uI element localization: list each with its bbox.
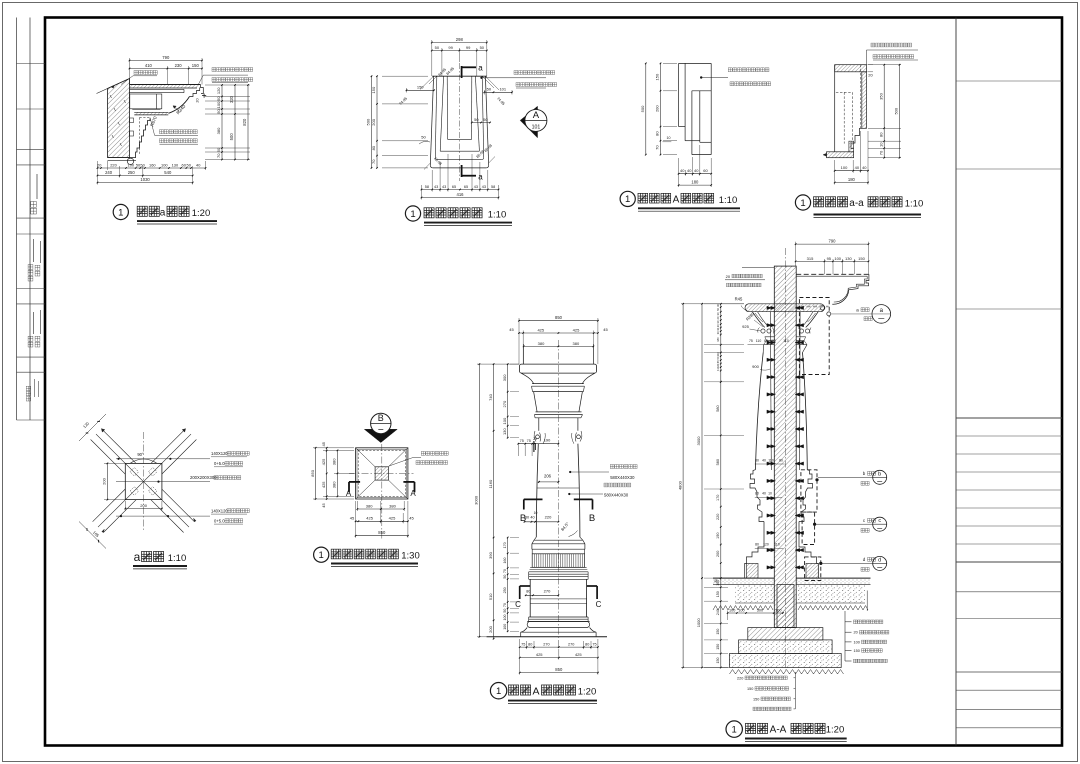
svg-text:A: A xyxy=(533,110,540,121)
svg-text:200: 200 xyxy=(371,118,376,125)
svg-text:100: 100 xyxy=(503,615,507,621)
bottom dims xyxy=(520,646,598,648)
top dims xyxy=(519,320,598,322)
svg-text:45: 45 xyxy=(350,516,355,521)
leader annotation 3 xyxy=(116,515,210,517)
svg-text:1:10: 1:10 xyxy=(719,195,738,206)
svg-text:140X120: 140X120 xyxy=(211,508,228,513)
svg-text:50: 50 xyxy=(474,117,479,122)
svg-text:150: 150 xyxy=(747,687,753,691)
svg-text:80: 80 xyxy=(585,643,589,647)
svg-text:40: 40 xyxy=(862,165,867,170)
svg-text:65: 65 xyxy=(464,185,468,189)
svg-text:270: 270 xyxy=(543,643,549,647)
svg-text:200: 200 xyxy=(655,105,660,112)
svg-text:a: a xyxy=(160,208,166,219)
svg-text:10: 10 xyxy=(878,142,883,147)
svg-text:50: 50 xyxy=(216,96,221,101)
svg-text:150: 150 xyxy=(192,63,200,68)
svg-text:380: 380 xyxy=(573,341,580,346)
svg-text:425: 425 xyxy=(573,327,580,332)
svg-text:100: 100 xyxy=(503,624,507,630)
svg-text:40: 40 xyxy=(680,168,685,173)
svg-text:100: 100 xyxy=(161,162,168,167)
svg-text:580: 580 xyxy=(716,459,720,465)
svg-text:43: 43 xyxy=(474,185,478,189)
detail 3: shape lines xyxy=(679,62,712,64)
bottom dims xyxy=(679,173,712,175)
svg-text:1: 1 xyxy=(800,198,805,209)
svg-text:120: 120 xyxy=(216,87,221,94)
svg-text:58: 58 xyxy=(491,185,495,189)
right dims col3 xyxy=(247,85,249,160)
abacus band hatched xyxy=(745,304,824,312)
left dim col 3000/1000 xyxy=(701,304,703,578)
ground band B xyxy=(735,585,774,603)
detail 6: outer square xyxy=(356,448,408,499)
svg-text:180: 180 xyxy=(716,337,720,342)
base mouldings right xyxy=(799,470,813,522)
svg-text:1: 1 xyxy=(410,209,415,220)
svg-text:250: 250 xyxy=(128,170,136,175)
svg-text:200: 200 xyxy=(716,551,720,557)
annotation right xyxy=(700,76,702,78)
svg-text:50: 50 xyxy=(487,87,492,92)
svg-text:80: 80 xyxy=(528,643,532,647)
svg-text:416: 416 xyxy=(457,192,465,197)
bottom dim 200 xyxy=(125,508,162,510)
svg-text:300: 300 xyxy=(757,608,763,612)
svg-text:a: a xyxy=(478,173,483,182)
svg-text:100: 100 xyxy=(834,256,841,261)
svg-text:75: 75 xyxy=(527,439,531,443)
svg-text:580X440X30: 580X440X30 xyxy=(610,475,635,480)
svg-text:500: 500 xyxy=(640,105,645,112)
top dims 790 xyxy=(796,243,869,245)
dashed callout box b xyxy=(801,470,817,512)
svg-text:790: 790 xyxy=(829,239,837,244)
leader annotation 1 xyxy=(116,458,210,460)
svg-text:A: A xyxy=(673,195,680,206)
svg-text:B: B xyxy=(378,413,384,423)
svg-text:20: 20 xyxy=(854,631,858,635)
svg-text:80: 80 xyxy=(878,132,883,137)
scarified soil zigzag xyxy=(713,606,868,611)
annotation top-right GFC xyxy=(212,68,253,72)
svg-text:45: 45 xyxy=(603,327,608,332)
svg-text:410: 410 xyxy=(145,63,153,68)
svg-text:206: 206 xyxy=(544,474,552,479)
svg-text:R45: R45 xyxy=(735,297,743,302)
svg-text:43: 43 xyxy=(482,185,486,189)
dim 150 xyxy=(407,89,435,91)
svg-text:30: 30 xyxy=(714,579,718,583)
right annotation stack (5) xyxy=(844,611,846,661)
svg-text:240: 240 xyxy=(105,170,113,175)
footing F3 xyxy=(730,654,842,668)
base mouldings left xyxy=(750,470,764,522)
capital shell face lines xyxy=(769,312,772,470)
svg-text:510: 510 xyxy=(488,593,493,600)
top dims 298 xyxy=(432,42,487,44)
svg-text:100: 100 xyxy=(738,608,744,612)
svg-text:b: b xyxy=(878,471,881,477)
strip label ACHITECT / ST.ENGINEER xyxy=(28,336,33,347)
svg-text:3000: 3000 xyxy=(696,436,701,446)
svg-text:850: 850 xyxy=(378,530,386,535)
svg-text:43: 43 xyxy=(434,185,438,189)
wall base bead xyxy=(108,157,137,159)
svg-text:C: C xyxy=(515,600,521,609)
svg-text:70: 70 xyxy=(503,603,507,607)
svg-text:220: 220 xyxy=(737,676,743,680)
base torus xyxy=(527,622,589,628)
bottom dims row1 xyxy=(98,167,206,169)
dashed callout box c xyxy=(802,512,815,544)
shell 2 xyxy=(440,76,443,151)
svg-text:315: 315 xyxy=(807,256,814,261)
right vdims xyxy=(868,64,901,66)
svg-text:1:10: 1:10 xyxy=(488,209,507,220)
leader annotation 2 (center) xyxy=(116,481,210,483)
svg-text:C: C xyxy=(596,600,602,609)
svg-text:80: 80 xyxy=(755,492,759,496)
left dim col near xyxy=(720,304,722,353)
svg-text:40: 40 xyxy=(762,459,766,463)
svg-text:220: 220 xyxy=(545,515,552,520)
annotation right GFC xyxy=(480,77,482,79)
svg-text:1: 1 xyxy=(118,207,123,218)
svg-text:99: 99 xyxy=(448,45,453,50)
svg-text:170: 170 xyxy=(716,495,720,501)
svg-text:1:20: 1:20 xyxy=(192,208,211,219)
svg-text:110: 110 xyxy=(783,339,789,343)
svg-text:1:20: 1:20 xyxy=(826,724,845,735)
right dims col2 xyxy=(234,85,236,160)
bottom annotation stack (4) xyxy=(794,672,796,709)
bottom dims xyxy=(422,189,499,191)
abacus xyxy=(520,364,597,373)
svg-text:100: 100 xyxy=(216,101,221,108)
svg-text:75: 75 xyxy=(749,339,753,343)
svg-text:3000: 3000 xyxy=(474,495,479,505)
svg-text:45: 45 xyxy=(409,516,414,521)
svg-text:50: 50 xyxy=(216,147,221,152)
neck to shaft xyxy=(762,345,764,353)
svg-text:70: 70 xyxy=(878,150,883,155)
svg-text:425: 425 xyxy=(321,458,326,465)
svg-text:1: 1 xyxy=(496,686,501,697)
svg-text:270: 270 xyxy=(568,643,574,647)
bottom dims xyxy=(835,170,868,172)
title 8 xyxy=(726,721,742,737)
bottom dims xyxy=(357,508,404,510)
svg-text:80: 80 xyxy=(755,459,759,463)
shaft joint line xyxy=(537,487,579,489)
echinus curves xyxy=(521,373,534,384)
svg-text:380: 380 xyxy=(389,503,396,508)
svg-text:4800: 4800 xyxy=(677,480,682,490)
svg-text:850: 850 xyxy=(555,315,563,320)
step profile xyxy=(851,128,862,148)
svg-text:1:10: 1:10 xyxy=(168,553,187,564)
detail circle d xyxy=(873,556,887,570)
svg-text:300: 300 xyxy=(502,374,507,381)
echinus curves xyxy=(752,312,765,328)
svg-text:350: 350 xyxy=(878,92,883,99)
dim 50/101 xyxy=(484,91,512,93)
left title strip xyxy=(16,18,18,421)
left extension lines xyxy=(704,303,744,305)
annotation right group2 xyxy=(568,493,570,495)
dim 50/50 mid xyxy=(472,122,490,124)
rings xyxy=(529,573,588,575)
main diagonals xyxy=(96,434,189,527)
svg-text:190: 190 xyxy=(544,438,551,443)
svg-text:20: 20 xyxy=(868,73,873,78)
svg-text:200X200X300: 200X200X300 xyxy=(190,475,217,480)
svg-text:50: 50 xyxy=(435,45,440,50)
svg-text:45: 45 xyxy=(321,441,326,446)
svg-text:200: 200 xyxy=(140,503,147,508)
svg-text:a: a xyxy=(134,550,141,564)
wall slope line xyxy=(97,79,130,94)
right hatched strip xyxy=(862,72,867,129)
top hatched band xyxy=(835,65,867,72)
svg-text:200: 200 xyxy=(102,477,107,484)
svg-text:900: 900 xyxy=(752,364,759,369)
svg-text:100: 100 xyxy=(729,608,735,612)
detail 3 left vdims xyxy=(663,62,677,64)
svg-text:850: 850 xyxy=(555,667,563,672)
stone top edge xyxy=(432,75,487,77)
B marks xyxy=(524,498,543,500)
svg-text:270: 270 xyxy=(502,400,507,407)
title 1 xyxy=(113,204,128,219)
svg-text:160: 160 xyxy=(503,558,507,564)
dashed interior xyxy=(843,92,845,143)
roof slab xyxy=(796,273,869,275)
svg-text:50: 50 xyxy=(480,45,485,50)
detail 5: center square xyxy=(125,463,162,499)
svg-text:500: 500 xyxy=(229,133,234,141)
svg-text:A: A xyxy=(532,686,539,698)
svg-text:850: 850 xyxy=(310,469,315,476)
svg-text:40: 40 xyxy=(694,168,699,173)
R240 label xyxy=(173,106,180,112)
svg-text:20: 20 xyxy=(533,437,537,441)
title 2 xyxy=(405,206,420,221)
main drum xyxy=(529,579,531,617)
svg-text:380: 380 xyxy=(332,458,337,465)
svg-text:580: 580 xyxy=(716,405,720,411)
svg-text:70: 70 xyxy=(503,569,507,573)
dashed diamonds xyxy=(130,468,139,477)
ring band xyxy=(532,383,584,385)
svg-text:80: 80 xyxy=(525,516,529,520)
left vdim 200 xyxy=(104,462,125,464)
section mark a top xyxy=(461,66,463,78)
svg-text:80: 80 xyxy=(755,543,759,547)
arrow circle A/101 xyxy=(520,106,537,137)
neck mouldings xyxy=(765,336,775,338)
band2 xyxy=(536,411,582,413)
svg-text:380: 380 xyxy=(216,127,221,134)
A section marks xyxy=(349,481,360,483)
annotation: joint gap xyxy=(134,70,157,74)
detail 8: column centerline xyxy=(784,248,786,670)
svg-text:1: 1 xyxy=(625,194,630,205)
shell outer xyxy=(430,76,433,165)
svg-text:180: 180 xyxy=(848,177,856,182)
strip label PL.ENGINEER / A.C.ENGINEER xyxy=(28,265,33,281)
band below flutes xyxy=(530,566,586,568)
left wall outline xyxy=(834,65,836,152)
volutes xyxy=(536,435,540,439)
svg-text:500: 500 xyxy=(366,118,371,125)
shaft xyxy=(536,444,538,538)
svg-text:50: 50 xyxy=(421,135,426,140)
svg-text:380: 380 xyxy=(538,341,545,346)
svg-text:A: A xyxy=(410,489,416,498)
svg-text:a: a xyxy=(478,64,483,73)
svg-text:80: 80 xyxy=(655,131,660,136)
top arc 90deg xyxy=(130,459,157,463)
anchor arrows along core xyxy=(771,306,776,309)
svg-text:10: 10 xyxy=(768,492,772,496)
neck xyxy=(538,418,540,431)
svg-text:140X120: 140X120 xyxy=(211,451,228,456)
svg-text:425: 425 xyxy=(536,652,543,657)
svg-text:40: 40 xyxy=(855,165,860,170)
svg-text:320: 320 xyxy=(229,95,234,103)
svg-text:60: 60 xyxy=(703,168,708,173)
svg-text:1030: 1030 xyxy=(140,177,150,182)
svg-text:50: 50 xyxy=(503,609,507,613)
svg-text:150: 150 xyxy=(655,73,660,80)
inner dashed square xyxy=(358,450,405,496)
svg-text:50: 50 xyxy=(503,575,507,579)
svg-text:1:30: 1:30 xyxy=(401,550,420,561)
svg-text:425: 425 xyxy=(389,516,396,521)
soil under footing xyxy=(730,670,844,675)
right annotation xyxy=(389,458,421,467)
svg-text:180: 180 xyxy=(691,180,699,185)
lower rings xyxy=(529,616,588,618)
shell 3 xyxy=(435,76,437,157)
slab band xyxy=(130,85,199,89)
lower slab strip xyxy=(134,112,168,115)
top dims 790 xyxy=(130,60,203,62)
svg-text:298: 298 xyxy=(456,37,464,42)
cornice steps (double line) xyxy=(832,274,869,304)
center hatched square xyxy=(375,467,388,480)
diag dim bottom-left xyxy=(79,522,106,549)
svg-text:80: 80 xyxy=(371,145,376,150)
diag dim 120 top-left xyxy=(79,414,106,441)
detail 2: centerline xyxy=(458,63,460,181)
svg-text:500: 500 xyxy=(894,107,899,114)
arrowheads on diagonals xyxy=(101,429,104,432)
svg-text:58: 58 xyxy=(425,185,429,189)
svg-text:1:10: 1:10 xyxy=(905,199,924,210)
wall battens xyxy=(130,118,134,123)
dashed callout box d xyxy=(805,557,821,581)
svg-text:0+5.0: 0+5.0 xyxy=(214,518,225,523)
inner offset square xyxy=(357,449,407,497)
svg-text:45: 45 xyxy=(509,327,514,332)
svg-text:100: 100 xyxy=(854,640,860,644)
svg-text:220: 220 xyxy=(716,514,720,520)
svg-text:50: 50 xyxy=(483,117,488,122)
svg-text:425: 425 xyxy=(366,516,373,521)
svg-text:150: 150 xyxy=(716,591,720,597)
svg-text:101: 101 xyxy=(532,125,541,131)
title 4 xyxy=(795,195,810,210)
detail 7: centerline xyxy=(557,340,559,648)
centerlines xyxy=(143,432,145,530)
svg-text:1000: 1000 xyxy=(696,618,701,628)
svg-text:10: 10 xyxy=(667,136,671,140)
svg-text:20: 20 xyxy=(195,98,199,102)
cove moulding R240 xyxy=(169,97,190,114)
title 3 xyxy=(620,191,635,206)
left dim col 4800 xyxy=(682,304,684,668)
dashed callout box a xyxy=(799,298,829,375)
svg-text:120: 120 xyxy=(763,543,769,547)
svg-text:99: 99 xyxy=(466,45,471,50)
svg-text:425: 425 xyxy=(537,327,544,332)
title 7 xyxy=(490,683,506,699)
svg-text:101: 101 xyxy=(499,87,506,92)
svg-text:75: 75 xyxy=(592,643,596,647)
footing F2 xyxy=(739,640,833,654)
svg-text:150: 150 xyxy=(716,644,720,650)
shaft profile xyxy=(755,353,763,470)
svg-text:540: 540 xyxy=(164,170,172,175)
plinth flare xyxy=(521,628,528,633)
svg-text:580X440X30: 580X440X30 xyxy=(604,493,629,498)
step hatch block xyxy=(849,141,854,152)
centerlines xyxy=(381,419,383,540)
svg-text:80: 80 xyxy=(526,589,530,593)
fluted drum xyxy=(532,554,584,568)
svg-text:790: 790 xyxy=(162,55,170,60)
svg-text:100: 100 xyxy=(775,608,781,612)
svg-text:820: 820 xyxy=(242,118,247,126)
svg-text:150: 150 xyxy=(854,649,860,653)
annotation right group1 xyxy=(569,471,571,473)
svg-text:150: 150 xyxy=(753,697,759,701)
beam edges NE-SW xyxy=(101,429,136,464)
svg-text:150: 150 xyxy=(858,256,865,261)
svg-text:130: 130 xyxy=(845,256,852,261)
callout leader a xyxy=(831,313,872,315)
beam edges NW-SE xyxy=(162,440,197,475)
svg-text:100: 100 xyxy=(128,162,135,167)
svg-text:80: 80 xyxy=(779,459,783,463)
base collar xyxy=(534,539,583,541)
svg-text:740: 740 xyxy=(488,393,493,400)
svg-text:240: 240 xyxy=(716,609,720,615)
right dims col1 xyxy=(205,84,250,86)
ground line xyxy=(487,636,607,638)
title 6 xyxy=(314,547,329,562)
svg-text:200: 200 xyxy=(488,625,493,632)
right title table xyxy=(955,18,957,746)
svg-text:150: 150 xyxy=(716,629,720,635)
bead rings xyxy=(761,329,765,333)
